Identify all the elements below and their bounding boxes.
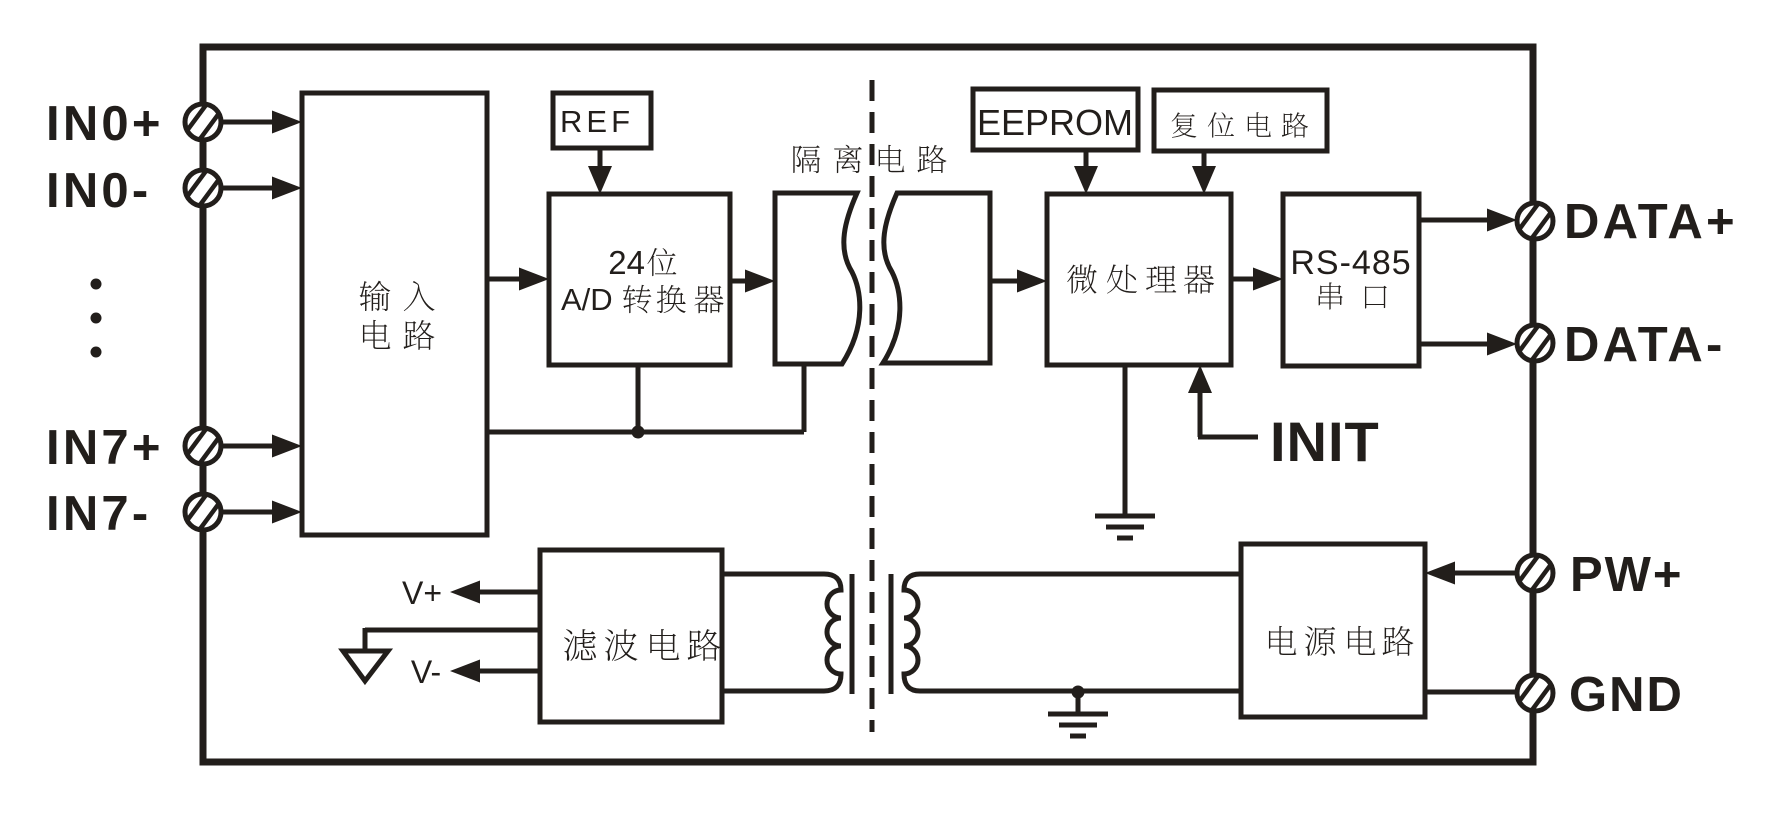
wire arrow filter circuit to V+ — [450, 581, 540, 604]
svg-text:IN0-: IN0- — [46, 164, 151, 218]
wire arrow EEPROM to microprocessor — [1074, 150, 1098, 194]
svg-text:REF: REF — [560, 104, 634, 139]
wire power circuit to GND terminal — [1425, 690, 1517, 695]
wire arrow RS-485 to DATA- — [1419, 333, 1517, 356]
wire arrow reset circuit to microprocessor — [1192, 151, 1216, 194]
label 滤波电路 (filter circuit) — [564, 629, 720, 661]
svg-text:IN7+: IN7+ — [46, 421, 164, 475]
svg-text:DATA-: DATA- — [1564, 318, 1726, 372]
terminal GND — [1517, 675, 1553, 711]
terminal PW+ — [1517, 555, 1553, 591]
module outline rectangle — [203, 47, 1533, 762]
junction node on power return wire — [1072, 686, 1085, 699]
label 复位电路 (reset circuit) — [1172, 112, 1308, 138]
wire arrow INIT to microprocessor — [1188, 365, 1212, 437]
vertical ellipsis dots — [91, 279, 102, 358]
label 隔离电路 (isolation circuit) — [793, 145, 946, 173]
svg-text:RS-485: RS-485 — [1290, 244, 1411, 282]
wire arrow microprocessor to RS-485 — [1231, 268, 1283, 291]
label 输入 (input) line 1 — [360, 281, 435, 311]
transformer core bars — [852, 574, 891, 694]
svg-text:GND: GND — [1569, 668, 1684, 722]
svg-text:PW+: PW+ — [1570, 548, 1684, 602]
svg-text:INIT: INIT — [1270, 410, 1380, 473]
svg-text:V-: V- — [411, 654, 441, 690]
junction node on feedback wire — [632, 426, 645, 439]
terminal DATA- — [1517, 325, 1553, 361]
terminal IN7+ — [185, 428, 221, 464]
filter circuit box 滤波电路 — [540, 550, 722, 722]
wire arrow IN0- to input circuit — [221, 177, 302, 200]
RS-485 serial port box U3 — [1283, 194, 1419, 366]
wire arrow isolation to microprocessor — [990, 270, 1047, 293]
isolation barrier right segment — [883, 193, 990, 363]
wire arrow IN7- to input circuit — [221, 501, 302, 524]
svg-text:EEPROM: EEPROM — [977, 102, 1133, 143]
terminal IN0+ — [185, 104, 221, 140]
wire arrow PW+ to power circuit — [1425, 562, 1517, 585]
transformer primary winding — [722, 574, 841, 691]
wire arrow REF to A/D — [588, 148, 612, 194]
REF box — [553, 93, 651, 148]
analog ground triangle symbol — [343, 651, 388, 681]
svg-text:24: 24 — [608, 244, 645, 281]
ground symbol under microprocessor — [1095, 516, 1155, 538]
A/D converter box U1 — [549, 194, 730, 365]
terminal IN0- — [185, 170, 221, 206]
svg-text:A/D: A/D — [561, 282, 613, 317]
wire microprocessor to ground — [1123, 365, 1128, 516]
svg-text:DATA+: DATA+ — [1564, 195, 1738, 249]
transformer secondary winding — [904, 574, 1241, 691]
wire filter circuit to analog ground — [365, 628, 540, 651]
svg-text:IN0+: IN0+ — [46, 97, 164, 151]
label 位 (of 24位) — [647, 248, 676, 276]
wire arrow RS-485 to DATA+ — [1419, 209, 1517, 232]
wire arrow A/D to isolation — [730, 270, 775, 293]
terminal DATA+ — [1517, 203, 1553, 239]
microprocessor box U2 — [1047, 194, 1231, 365]
wire arrow IN0+ to input circuit — [221, 111, 302, 134]
input circuit box 输入电路 — [302, 93, 487, 535]
reset circuit box 复位电路 — [1154, 90, 1327, 151]
label 微处理器 (microprocessor) — [1067, 265, 1214, 294]
terminal IN7- — [185, 494, 221, 530]
svg-text:IN7-: IN7- — [46, 487, 151, 541]
wire arrow input circuit to A/D — [487, 268, 549, 291]
isolation barrier left segment — [775, 193, 860, 364]
EEPROM box — [973, 89, 1138, 150]
wire INIT horizontal segment — [1198, 435, 1258, 440]
label 转换器 (converter) — [623, 285, 724, 314]
svg-text:V+: V+ — [402, 575, 442, 611]
label 串口 (serial port) — [1319, 282, 1387, 309]
wire arrow filter circuit to V- — [450, 660, 540, 683]
wire junction to power ground — [1076, 692, 1081, 714]
isolation dashed line — [870, 80, 875, 732]
wire arrow IN7+ to input circuit — [221, 435, 302, 458]
label 电路 (circuit) line 2 — [363, 320, 434, 350]
wire A/D feedback to isolation bottom — [487, 364, 804, 432]
ground symbol on power return — [1048, 714, 1108, 736]
power circuit box 电源电路 — [1241, 544, 1425, 717]
label 电源电路 (power circuit) — [1269, 626, 1413, 656]
